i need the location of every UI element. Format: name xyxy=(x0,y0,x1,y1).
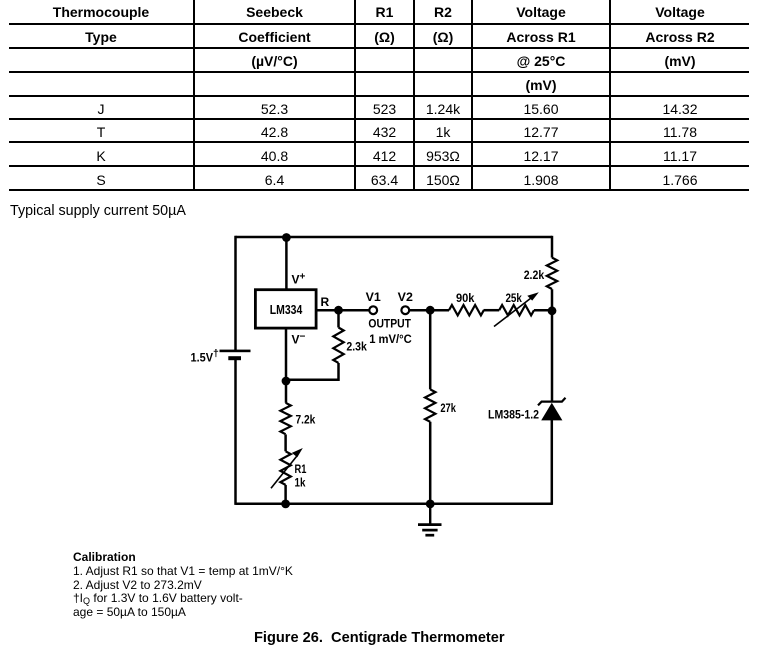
label 1 mV/°C xyxy=(369,334,412,346)
pin label R xyxy=(321,295,330,309)
junction right rail xyxy=(548,306,557,315)
wire junction to 90k xyxy=(430,309,449,312)
data rows xyxy=(9,98,193,121)
svg-text:V−: V− xyxy=(292,332,306,347)
resistor 27k xyxy=(425,389,435,421)
wire 2.3k bottom to V- junction xyxy=(286,363,339,380)
wire V+ pin xyxy=(285,238,288,289)
wire V- junction to 7.2k xyxy=(285,381,288,403)
battery label 1.5V† xyxy=(191,348,220,365)
wire 90k to 25k xyxy=(484,309,500,312)
wire right rail top xyxy=(551,236,554,258)
header row 3 xyxy=(195,50,354,73)
svg-text:25k: 25k xyxy=(505,291,522,305)
resistor 7.2k xyxy=(280,403,290,434)
svg-text:90k: 90k xyxy=(456,291,475,305)
svg-text:LM334: LM334 xyxy=(270,303,303,317)
wire 7.2k to R1 xyxy=(284,434,287,451)
wire left rail lower xyxy=(234,358,237,505)
node label V1 xyxy=(366,290,382,304)
wire 2.2k to right junction xyxy=(551,289,554,311)
svg-text:V1: V1 xyxy=(366,290,382,304)
IC LM334 xyxy=(255,290,316,328)
resistor R1 1k (adjustable) xyxy=(280,451,290,485)
svg-text:†: † xyxy=(213,348,219,360)
svg-text:1k: 1k xyxy=(295,476,306,490)
25k wiper arrow xyxy=(494,292,539,326)
svg-text:2.2k: 2.2k xyxy=(524,268,545,282)
wire zener to bottom rail xyxy=(551,420,554,505)
svg-text:1 mV/°C: 1 mV/°C xyxy=(369,334,412,346)
wire V2 junction down to 27k xyxy=(429,310,432,389)
calibration notes xyxy=(73,551,293,619)
supply current note xyxy=(10,203,186,219)
R1 wiper arrow xyxy=(271,448,303,488)
wire 2.3k top lead xyxy=(337,310,340,327)
wire 25k to right rail xyxy=(534,309,552,312)
node label V2 xyxy=(398,290,414,304)
value label 25k xyxy=(505,291,522,305)
figure caption xyxy=(254,630,505,646)
value label 90k xyxy=(456,291,475,305)
svg-text:OUTPUT: OUTPUT xyxy=(368,319,411,331)
junction R pin node xyxy=(334,306,343,315)
junction V- node xyxy=(282,377,291,386)
svg-text:7.2k: 7.2k xyxy=(296,412,316,426)
junction bottom left xyxy=(281,500,290,509)
pin label V- xyxy=(292,332,306,347)
resistor 2.3k xyxy=(333,328,343,363)
header row 2 xyxy=(9,26,193,49)
zener diode LM385-1.2 xyxy=(538,398,566,421)
value label 2.2k xyxy=(524,268,545,282)
label OUTPUT xyxy=(368,319,411,331)
wire V- pin xyxy=(285,330,288,382)
header row 4 xyxy=(473,74,609,97)
wire R1 to bottom rail xyxy=(284,485,287,504)
junction ground node xyxy=(426,500,435,509)
wire bottom rail xyxy=(236,502,553,505)
junction V2 node xyxy=(426,306,435,315)
wire right junction to zener xyxy=(551,311,554,402)
wire V2 to junction xyxy=(409,309,430,312)
terminal V1 xyxy=(369,306,377,314)
resistor 90k xyxy=(449,305,484,315)
resistor 2.2k xyxy=(547,258,557,289)
svg-text:R: R xyxy=(321,295,330,309)
svg-text:V+: V+ xyxy=(292,272,306,287)
horizontal rules xyxy=(9,23,749,25)
battery 1.5V xyxy=(220,350,251,361)
svg-text:V2: V2 xyxy=(398,290,414,304)
vertical rules xyxy=(193,0,195,191)
ground xyxy=(418,504,442,536)
potentiometer 25k xyxy=(499,305,534,315)
wire top rail xyxy=(236,236,553,239)
svg-text:LM385-1.2: LM385-1.2 xyxy=(488,408,539,422)
svg-text:2.3k: 2.3k xyxy=(346,340,367,354)
ref label R1 xyxy=(295,462,307,476)
value label 7.2k xyxy=(296,412,316,426)
wire R pin xyxy=(318,309,339,312)
value label 2.3k xyxy=(346,340,367,354)
part label LM385-1.2 xyxy=(488,408,539,422)
svg-text:27k: 27k xyxy=(440,401,456,415)
value label 27k xyxy=(440,401,456,415)
pin label V+ xyxy=(292,272,306,287)
wire left rail upper xyxy=(234,236,237,350)
junction top rail / V+ xyxy=(282,233,291,242)
wire 27k to ground junction xyxy=(429,422,432,504)
value label 1k xyxy=(295,476,306,490)
svg-text:1.5V: 1.5V xyxy=(191,351,214,365)
wire R junction to V1 xyxy=(339,309,370,312)
svg-text:R1: R1 xyxy=(295,462,307,476)
terminal V2 xyxy=(401,306,409,314)
header row 1 xyxy=(9,1,193,24)
